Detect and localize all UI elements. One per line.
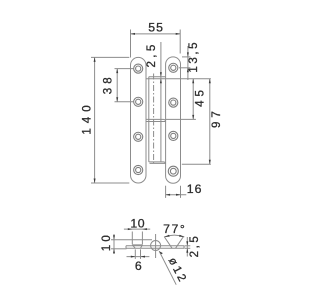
right leaf hole 2 xyxy=(169,98,178,107)
arrow dim97 top xyxy=(209,79,211,84)
svg-text:6: 6 xyxy=(135,259,144,273)
knuckle left edge xyxy=(148,77,150,162)
left leaf hole 2 xyxy=(134,97,143,106)
right leaf outline xyxy=(166,57,181,183)
arrow dim55 left xyxy=(131,33,136,35)
arrow dim45 top xyxy=(192,79,194,84)
knuckle joint step lower xyxy=(147,121,166,123)
bottom view plate section xyxy=(126,246,184,249)
svg-text:55: 55 xyxy=(148,21,164,35)
arrow dim2.5right top xyxy=(186,241,188,246)
arrow dim45 bottom xyxy=(192,115,194,120)
left leaf hole 3 xyxy=(134,132,143,141)
svg-text:45: 45 xyxy=(194,86,206,107)
arrow dim10top right xyxy=(142,228,147,230)
dim 16 xyxy=(166,186,187,198)
dim 45 xyxy=(192,79,194,120)
arrow dim2.5 top xyxy=(160,72,162,77)
left leaf outline xyxy=(131,57,147,183)
dim 97 bottom extension line xyxy=(182,163,211,165)
svg-text:77°: 77° xyxy=(163,222,186,236)
arrow dim10left top xyxy=(113,235,115,240)
dim 140 xyxy=(91,57,129,183)
left leaf hole 1 xyxy=(134,64,143,73)
knuckle joint step upper xyxy=(147,119,166,121)
svg-text:2,5: 2,5 xyxy=(146,41,158,67)
arrow dia12 leader xyxy=(159,251,163,254)
svg-text:140: 140 xyxy=(82,100,94,134)
knuckle top edge xyxy=(149,76,166,78)
arrow dim38 bottom xyxy=(116,97,118,102)
arrow dim38 top xyxy=(116,69,118,74)
arrow dim6 left xyxy=(131,256,136,258)
knuckle reference edge xyxy=(146,78,211,80)
arrow 77deg left xyxy=(164,235,169,237)
arrow dim6 right xyxy=(141,256,146,258)
arrow dim13.5 bottom xyxy=(187,68,189,73)
dim 55 xyxy=(131,30,181,58)
bottom view pin circle xyxy=(151,241,161,251)
dim 10 top xyxy=(124,229,150,244)
svg-text:16: 16 xyxy=(187,182,203,196)
right leaf pin boss hole xyxy=(168,166,178,176)
dim 6 xyxy=(127,249,150,259)
right leaf hole 3 xyxy=(169,131,178,140)
arrow dim140 top xyxy=(94,57,96,62)
arrow dim10top left xyxy=(128,228,133,230)
svg-text:97: 97 xyxy=(211,107,223,128)
arrow dim2.5right bottom xyxy=(186,248,188,253)
knuckle right edge / pin line xyxy=(160,42,162,162)
arrow dim97 bottom xyxy=(209,160,211,165)
svg-text:2,5: 2,5 xyxy=(189,234,201,258)
77 degree arc xyxy=(164,235,184,237)
svg-text:10: 10 xyxy=(101,232,113,251)
dim 13,5 xyxy=(179,46,190,80)
svg-text:10: 10 xyxy=(130,216,145,230)
pin axis centerline xyxy=(153,74,155,166)
dia 12 leader line xyxy=(159,251,176,285)
knuckle bottom lower edge xyxy=(150,162,166,164)
knuckle bottom edge xyxy=(149,162,166,164)
arrow 77deg right xyxy=(179,235,184,237)
arrow dim16 right xyxy=(176,194,181,196)
countersink hole right chamfer xyxy=(164,237,183,249)
svg-text:13,5: 13,5 xyxy=(188,40,200,73)
right leaf hole 1 xyxy=(169,63,178,72)
svg-text:38: 38 xyxy=(102,73,114,94)
pin circle vertical centerline xyxy=(155,234,157,258)
arrow dim13.5 top xyxy=(187,52,189,57)
arrow dim10left bottom xyxy=(113,249,115,254)
arrow dim16 left xyxy=(166,194,171,196)
arrow dim55 right xyxy=(176,33,181,35)
dim 38 xyxy=(115,69,134,102)
countersink hole left xyxy=(132,245,142,248)
left leaf hole 4 xyxy=(134,165,143,174)
dim 2,5 right xyxy=(185,237,191,257)
dim 10 left xyxy=(111,234,152,254)
dim 97 xyxy=(209,79,211,165)
knuckle joint step extension xyxy=(166,118,196,120)
arrow dim140 bottom xyxy=(94,179,96,184)
arrow dim2.5 bottom xyxy=(160,79,162,84)
